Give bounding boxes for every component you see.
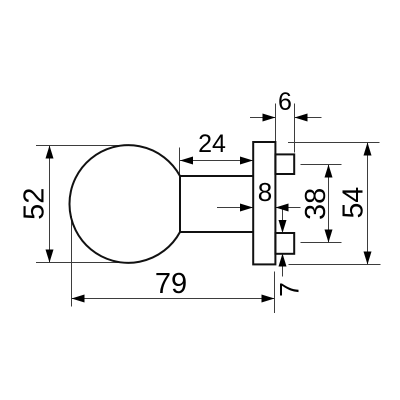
dim 6 ext right <box>294 104 296 153</box>
dim 38 line <box>328 165 330 243</box>
arrow 38 down <box>325 230 333 243</box>
dim 38 ext top <box>301 164 342 166</box>
arrow 52 up <box>46 146 54 159</box>
svg-text:79: 79 <box>155 268 187 300</box>
rose plate <box>253 142 275 264</box>
arrow 79 left <box>72 295 85 303</box>
dim 8 tail right <box>276 207 301 209</box>
dim 8 tail left <box>217 207 253 209</box>
arrow 54 up <box>364 143 372 156</box>
svg-text:52: 52 <box>19 188 51 220</box>
dim 54 line <box>367 143 369 265</box>
svg-text:38: 38 <box>300 188 332 220</box>
arrow 24 left <box>180 157 193 165</box>
svg-text:6: 6 <box>278 88 292 116</box>
arrow 54 down <box>364 252 372 265</box>
spindle dim tail bottom <box>282 258 284 277</box>
knob circle with flat chord <box>69 145 180 263</box>
spindle dim tail top <box>282 210 284 227</box>
dim 38 ext bottom <box>301 242 342 244</box>
dim 79 ext right <box>274 272 276 314</box>
dim 52 line <box>49 146 51 263</box>
svg-text:54: 54 <box>338 187 370 219</box>
dim 6 tail left <box>250 117 276 119</box>
arrow 79 right <box>262 295 275 303</box>
neck bottom line <box>180 231 253 233</box>
arrow 8 pointing right <box>240 204 253 212</box>
dim 54 ext bottom <box>289 264 381 266</box>
dim 79 ext left <box>71 216 73 307</box>
svg-text:7: 7 <box>274 282 304 297</box>
arrow 38 up <box>325 165 333 178</box>
arrow 6 pointing right <box>263 114 276 122</box>
dim 54 ext top <box>288 142 380 144</box>
arrow 52 down <box>46 250 54 263</box>
dim 79 line <box>72 298 275 300</box>
bottom spindle boss <box>275 233 294 254</box>
svg-text:24: 24 <box>198 130 226 158</box>
arrow spindle up <box>279 254 287 267</box>
svg-text:8: 8 <box>258 177 272 207</box>
arrow 24 right <box>240 157 253 165</box>
dim 52 ext bottom <box>36 262 121 264</box>
arrow spindle down <box>279 220 287 233</box>
dim 6 ext left <box>275 104 277 142</box>
dim 6 tail right <box>295 117 322 119</box>
dim 52 ext top <box>36 145 128 147</box>
neck top line <box>180 175 253 177</box>
arrow 8 pointing left <box>276 204 289 212</box>
top screw boss <box>275 154 294 174</box>
dim 24 ext left <box>179 148 181 176</box>
arrow 6 pointing left <box>295 114 308 122</box>
dim 24 line <box>180 160 253 162</box>
